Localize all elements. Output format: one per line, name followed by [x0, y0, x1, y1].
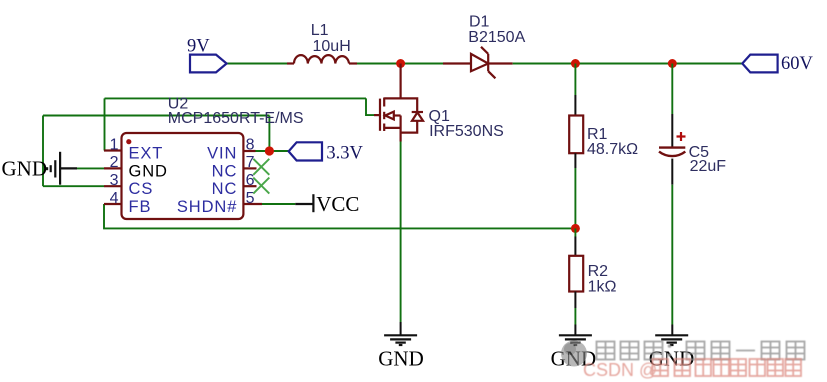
watermark row2 [583, 359, 801, 380]
wire FB down [104, 204, 575, 228]
wire D1 to 60V port [513, 63, 743, 65]
pin 4 stub [104, 203, 122, 205]
inductor L1 [287, 55, 357, 63]
svg-text:4: 4 [110, 190, 119, 207]
wire VIN loop to CS pin [43, 185, 104, 187]
svg-text:48.7kΩ: 48.7kΩ [587, 141, 638, 158]
junction node L1/D1/Q1 drain [396, 59, 405, 68]
diode D1 (Schottky) [443, 47, 513, 79]
wire pin8 to port [256, 150, 289, 152]
wire C5 bottom [671, 185, 673, 325]
wire L1 to D1 [357, 63, 443, 65]
wire R2 bottom [574, 308, 576, 325]
wire VIN loop horizontal [43, 115, 269, 117]
svg-text:IRF530NS: IRF530NS [429, 123, 504, 140]
resistor R2 [574, 237, 576, 256]
svg-text:10uH: 10uH [313, 38, 351, 55]
transistor Q1 [374, 64, 423, 142]
wire Q1 source down [400, 142, 402, 323]
svg-text:1kΩ: 1kΩ [588, 278, 617, 295]
svg-text:1: 1 [110, 136, 119, 153]
svg-text:CSDN @: CSDN @ [583, 360, 657, 380]
junction node C5 top [668, 59, 677, 68]
wire R1 top [574, 64, 576, 96]
capacitor C5 [671, 114, 673, 147]
wire VIN loop vertical left [42, 116, 44, 187]
svg-text:3: 3 [110, 172, 119, 189]
ground GND3 [655, 335, 688, 345]
svg-text:FB: FB [129, 198, 152, 216]
svg-text:2: 2 [110, 154, 119, 171]
wire R1 bottom [574, 168, 576, 228]
wire C5 gnd stub [671, 325, 673, 335]
pin 3 stub [104, 185, 122, 187]
pin 7 stub [243, 167, 256, 169]
junction node FB divider [571, 224, 580, 233]
pin 1 dot [126, 139, 131, 144]
resistor R1 [574, 95, 576, 116]
junction node R1 top [571, 59, 580, 68]
wire Q1 source gnd stub [400, 322, 402, 335]
IC U2 MCP1650RT-E/MS box [122, 133, 244, 219]
port 3.3V [289, 142, 322, 160]
power symbol GND left [47, 152, 77, 185]
no-connect X pin 7 [253, 159, 269, 175]
svg-text:GND: GND [129, 162, 168, 180]
svg-text:GND: GND [2, 157, 48, 181]
wire R2 top [574, 228, 576, 236]
svg-text:60V: 60V [781, 54, 814, 74]
watermark row1 [597, 342, 805, 360]
watermark logo [561, 341, 587, 367]
wire VIN loop vertical right [268, 116, 270, 152]
svg-text:MCP1650RT-E/MS: MCP1650RT-E/MS [168, 110, 304, 127]
port 60V [742, 55, 777, 73]
pin 2 stub [104, 167, 122, 169]
svg-text:22uF: 22uF [690, 158, 727, 175]
wire 9V port to L1 [227, 63, 287, 65]
svg-text:VCC: VCC [316, 192, 359, 216]
ground GND2 [559, 335, 592, 345]
svg-text:8: 8 [246, 136, 255, 153]
wire EXT vertical [104, 98, 106, 150]
svg-text:VIN: VIN [207, 145, 237, 163]
wire C5 top [671, 64, 673, 115]
svg-text:L1: L1 [311, 22, 329, 39]
pin 1 stub [104, 149, 122, 151]
wire EXT drop to gate [366, 98, 374, 115]
port 9V [190, 55, 227, 73]
pin 5 stub [243, 203, 262, 205]
wire EXT horizontal top [105, 97, 367, 99]
svg-text:EXT: EXT [129, 145, 164, 163]
wire GND to pin2 [77, 167, 104, 169]
svg-text:GND: GND [378, 347, 424, 371]
wire R2 gnd stub [574, 325, 576, 335]
svg-text:CS: CS [129, 180, 154, 198]
svg-text:NC: NC [212, 180, 238, 198]
svg-text:NC: NC [212, 162, 238, 180]
junction node VIN [265, 146, 274, 155]
power symbol VCC [295, 194, 313, 212]
ground GND1 [384, 335, 417, 345]
pin 8 stub [243, 150, 255, 152]
wire SHDN# to VCC [262, 203, 295, 205]
no-connect X pin 6 [253, 178, 269, 194]
svg-text:B2150A: B2150A [468, 29, 525, 46]
pin 6 stub [243, 185, 256, 187]
svg-text:3.3V: 3.3V [326, 144, 363, 164]
svg-text:SHDN#: SHDN# [177, 198, 237, 216]
svg-text:7: 7 [246, 154, 255, 171]
svg-text:9V: 9V [187, 37, 210, 57]
